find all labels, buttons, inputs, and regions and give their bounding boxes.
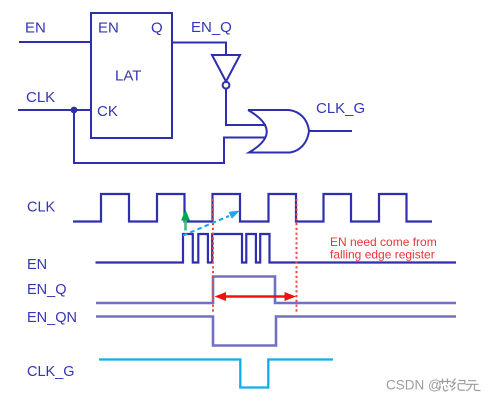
wire Q output to inverter bbox=[172, 43, 226, 56]
svg-text:CSDN @: CSDN @ bbox=[386, 378, 442, 393]
wire inverter to OR gate upper input bbox=[226, 89, 266, 125]
hanzi xin bbox=[439, 379, 452, 392]
red dotted guide line right bbox=[296, 199, 298, 312]
wire CLK input bbox=[18, 109, 91, 111]
svg-text:EN_Q: EN_Q bbox=[191, 19, 232, 36]
svg-text:CLK: CLK bbox=[26, 89, 55, 106]
junction dot CLK/CK bbox=[71, 107, 78, 114]
svg-text:Q: Q bbox=[151, 20, 163, 37]
svg-text:CLK_G: CLK_G bbox=[316, 100, 365, 117]
watermark CSDN bbox=[386, 378, 442, 393]
svg-text:EN: EN bbox=[25, 20, 46, 37]
svg-text:LAT: LAT bbox=[115, 68, 141, 85]
svg-text:CLK_G: CLK_G bbox=[27, 364, 75, 380]
EN waveform bbox=[96, 234, 457, 263]
CLK waveform bbox=[73, 194, 432, 222]
svg-text:CLK: CLK bbox=[27, 200, 56, 216]
wire CLK feed to OR gate lower input bbox=[74, 110, 266, 163]
svg-text:CK: CK bbox=[97, 103, 118, 120]
OR gate U3 bbox=[248, 110, 309, 153]
wire EN input bbox=[19, 41, 91, 43]
cyan dashed arrow (shift indication) bbox=[183, 211, 240, 236]
red dotted guide line left bbox=[212, 199, 214, 312]
svg-text:falling edge register: falling edge register bbox=[330, 248, 435, 262]
CLK_G waveform bbox=[99, 360, 333, 388]
watermark CJK glyphs drawn as strokes bbox=[439, 379, 481, 392]
inverter U2 bbox=[212, 55, 240, 82]
svg-text:EN: EN bbox=[98, 20, 119, 37]
EN_Q waveform bbox=[96, 277, 456, 304]
red annotation text bbox=[330, 235, 437, 262]
red double-headed arrow (gated window) bbox=[215, 292, 297, 301]
wire OR output bbox=[309, 130, 352, 132]
svg-text:EN_QN: EN_QN bbox=[27, 310, 77, 326]
green arrow (sample point) bbox=[181, 210, 190, 231]
latch U1 box bbox=[91, 13, 172, 138]
EN_QN waveform bbox=[96, 317, 456, 346]
hanzi ji (silk radical + ji) bbox=[451, 379, 465, 391]
svg-text:EN: EN bbox=[27, 257, 47, 273]
hanzi yuan bbox=[466, 381, 481, 391]
svg-text:EN_Q: EN_Q bbox=[27, 282, 67, 298]
